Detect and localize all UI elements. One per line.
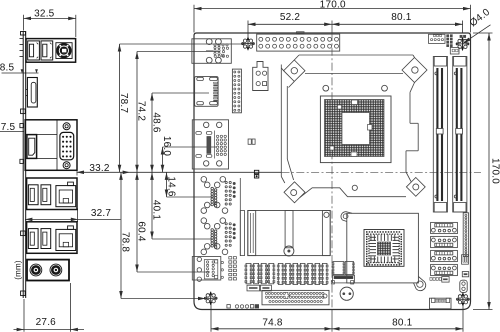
mini-PCIe screw standoff [284, 246, 294, 256]
RJ45 LAN port block2 [56, 229, 76, 250]
bottom edge connector near H4 [430, 298, 452, 309]
USB port A side view [28, 41, 40, 60]
header pair above buzzer [333, 262, 344, 275]
heatsink bracket corner diamond top-left [284, 60, 305, 81]
right edge vertical pin header [463, 213, 468, 256]
leader line y=197 to USB/LAN footprint 1 [167, 196, 214, 198]
leader line y=51.5 to PS/2 footprint [137, 51, 220, 53]
mounting hole H4 bottom-right [457, 293, 470, 307]
dimension 52.2: extension line from hole H1 [247, 21, 249, 40]
svg-text:8.5: 8.5 [0, 62, 14, 73]
USB port B side view [41, 41, 53, 60]
svg-text:48.6: 48.6 [151, 112, 162, 133]
dimension 52.2: dimension line [248, 23, 332, 25]
PS/2 keyboard-mouse footprint [192, 39, 231, 64]
svg-text:60.4: 60.4 [136, 221, 147, 242]
chipset plate ear top-left [341, 212, 352, 222]
small component pair near VGA [248, 139, 251, 144]
dimension 78.8: dimension line [120, 172, 122, 298]
front-panel tiny header near audio [229, 257, 232, 259]
svg-text:32.7: 32.7 [91, 208, 112, 219]
dimension 32.5: extension lines [23, 15, 25, 31]
svg-text:74.8: 74.8 [262, 318, 283, 329]
buzzer [340, 287, 353, 300]
two jumper blocks below group A [247, 285, 260, 291]
mini-PCIe right support bar [322, 211, 330, 256]
heatsink bracket right band [410, 83, 415, 93]
SATA connector 4 [431, 264, 458, 275]
USB ports block1 [28, 185, 38, 205]
leader line y=147 to VGA footprint [163, 146, 217, 148]
I/O bracket strip side view [22, 31, 24, 298]
svg-text:78.8: 78.8 [120, 232, 131, 253]
svg-text:27.6: 27.6 [36, 317, 57, 328]
USB/LAN stacked footprint 1 [201, 177, 235, 214]
mini-PCIe keepout bar left [240, 211, 244, 256]
vertical centreline through board at x=332 [331, 21, 333, 34]
leader line y=298.5 to hole H3 with arrow [121, 298, 206, 300]
mini-PCIe card outline [248, 211, 330, 256]
VGA DB15 footprint on board [192, 120, 228, 169]
dimension 14.6: dimension line [166, 172, 168, 197]
dimension 80.1 top: dimension line [332, 23, 463, 25]
chipset heatsink plate [347, 213, 419, 283]
mini-PCIe right standoff hole [324, 212, 329, 217]
dimension 74.2: dimension line [136, 52, 138, 173]
dimension 16.0: dimension line [162, 147, 164, 172]
audio jack 2 [50, 264, 62, 276]
heatsink bracket bottom-centre hole [352, 185, 357, 190]
small connector top-right corner [429, 34, 446, 43]
dimension 27.6: dimension line with outside arrows [14, 329, 85, 331]
svg-text:74.2: 74.2 [136, 101, 147, 122]
mounting hole H1 top-left [242, 37, 255, 51]
leader line y=93 to HDMI footprint [152, 92, 209, 94]
dimension 80.1 bottom: dimension line [332, 328, 463, 330]
leader line y=239 to USB/LAN footprint 2 [152, 238, 213, 240]
dimension 78.7: dimension line [119, 44, 121, 172]
svg-text:80.1: 80.1 [391, 12, 412, 23]
vertical slot connector below 8.5 [27, 78, 37, 108]
DIMM slot 2 [453, 57, 467, 213]
dimension 27.6: extension lines [23, 299, 25, 332]
vertical pad column right of it [447, 35, 449, 37]
CPU socket heatsink screw hole left [323, 85, 329, 91]
dimension 40.1: dimension line [151, 172, 153, 239]
heatsink bracket left band [280, 65, 282, 177]
PS/2 + dual USB stack block [26, 39, 76, 63]
audio jacks block [27, 260, 69, 281]
tiny pads row left of H4 [430, 278, 432, 281]
dimension 48.6: dimension line [151, 93, 153, 172]
mounting hole H3 bottom-left [204, 292, 217, 306]
dimension 170.0 right: extension lines [473, 32, 493, 34]
dimension 32.5: dimension line [24, 17, 76, 19]
dimension 60.4: dimension line [136, 172, 138, 272]
horizontal datum line y=172.3 with dim 33.2 [77, 171, 282, 173]
ATX12V 4-pin power connector [253, 62, 268, 91]
svg-text:14.6: 14.6 [165, 176, 176, 197]
fan header below H2 [450, 47, 459, 54]
bottom edge pad row left of DIO [227, 305, 230, 308]
svg-text:16.0: 16.0 [161, 136, 172, 157]
two-pin vertical connector bottom right [460, 280, 467, 292]
USB ports block2 [28, 229, 38, 249]
PS/2 connector side view [56, 43, 72, 59]
motherboard outline 170x170 [194, 33, 471, 310]
mini-PCIe centre support bar [285, 211, 293, 248]
CPU socket notches [352, 100, 358, 105]
CPU socket pad array (hatched ring) [325, 100, 385, 157]
DIMM slot 1 [433, 57, 447, 213]
svg-text:52.2: 52.2 [280, 12, 301, 23]
I/O bracket solder tabs [20, 38, 24, 40]
chipset BGA outline [364, 230, 404, 267]
ATX 24-pin power connector [257, 34, 340, 51]
dimension 74.8: dimension line [211, 328, 332, 330]
SATA connector 3 [431, 250, 458, 261]
dimension 74.8: extension line from hole H3 [210, 303, 212, 332]
svg-text:33.2: 33.2 [89, 163, 110, 174]
DIO 44-pin connector footprint [262, 290, 329, 304]
dimension 170.0 top: extension lines [193, 5, 195, 33]
RJ45 LAN port block1 [56, 186, 76, 207]
front panel pin header 2x10 [232, 69, 241, 113]
HDMI connector side view [27, 135, 37, 159]
leader line y=272 to audio jack footprint [137, 271, 210, 273]
mini-PCIe edge connector [248, 211, 256, 256]
dimension phi 4.0: leader line to hole H2 [463, 25, 490, 43]
svg-text:170.0: 170.0 [320, 0, 346, 10]
svg-text:80.1: 80.1 [392, 318, 413, 329]
heatsink bracket bottom band [300, 188, 406, 198]
CPU socket heatsink screw hole right [382, 85, 388, 91]
dimension 80.1 bottom: extension line from hole H4 [462, 303, 464, 332]
small jumper on right edge [462, 272, 468, 277]
heatsink bracket corner diamond bottom-left [284, 182, 305, 203]
heatsink bracket top band [299, 54, 413, 56]
svg-text:78.7: 78.7 [118, 93, 129, 114]
audio jack footprint on board [192, 257, 221, 281]
USB/LAN stacked footprint 2 [201, 218, 235, 255]
USB + LAN stack block 2 [27, 222, 77, 254]
dimension 32.7: dimension line [25, 218, 121, 220]
leader line y=44 to PS/2 footprint and hole H1 [120, 43, 245, 45]
SATA connector 1 [431, 222, 458, 233]
small component on centreline [254, 170, 258, 173]
VGA DB15 connector with screw posts [63, 123, 70, 130]
audio jack 1 [30, 264, 42, 276]
dimension 32.7: extension line [77, 209, 79, 223]
mounting hole H2 top-right [456, 37, 469, 51]
heatsink bracket corner diamond top-right [402, 58, 427, 83]
HDMI footprint on board [195, 77, 219, 107]
HDMI + VGA DB15 block [25, 120, 77, 171]
chipset BGA pad pattern [366, 231, 402, 265]
two pads above hole H2 [460, 35, 462, 37]
heatsink bracket corner diamond bottom-right [406, 178, 425, 197]
svg-text:40.1: 40.1 [151, 200, 162, 221]
keepout line right of USB/LAN footprints [239, 178, 241, 256]
svg-text:170.0: 170.0 [489, 158, 500, 184]
svg-text:(mm): (mm) [14, 260, 23, 280]
CPU socket outline [320, 96, 391, 163]
svg-text:32.5: 32.5 [34, 9, 55, 20]
dimension 170.0 top: dimension line with arrows [194, 8, 471, 10]
dimension 170.0 right: dimension line [488, 33, 490, 310]
SATA connector 2 [431, 236, 458, 247]
USB + LAN stack block 1 [27, 178, 77, 210]
horizontal centreline across board y=172.3 (dash-dot) [282, 171, 482, 173]
small connector below right-edge header [462, 255, 469, 265]
pin header group A (4 vertical headers) [246, 263, 251, 283]
pin header group B (7 vertical headers) [278, 263, 283, 284]
chipset plate ear bottom-right [414, 277, 426, 291]
flat connector above buzzer [333, 275, 355, 283]
